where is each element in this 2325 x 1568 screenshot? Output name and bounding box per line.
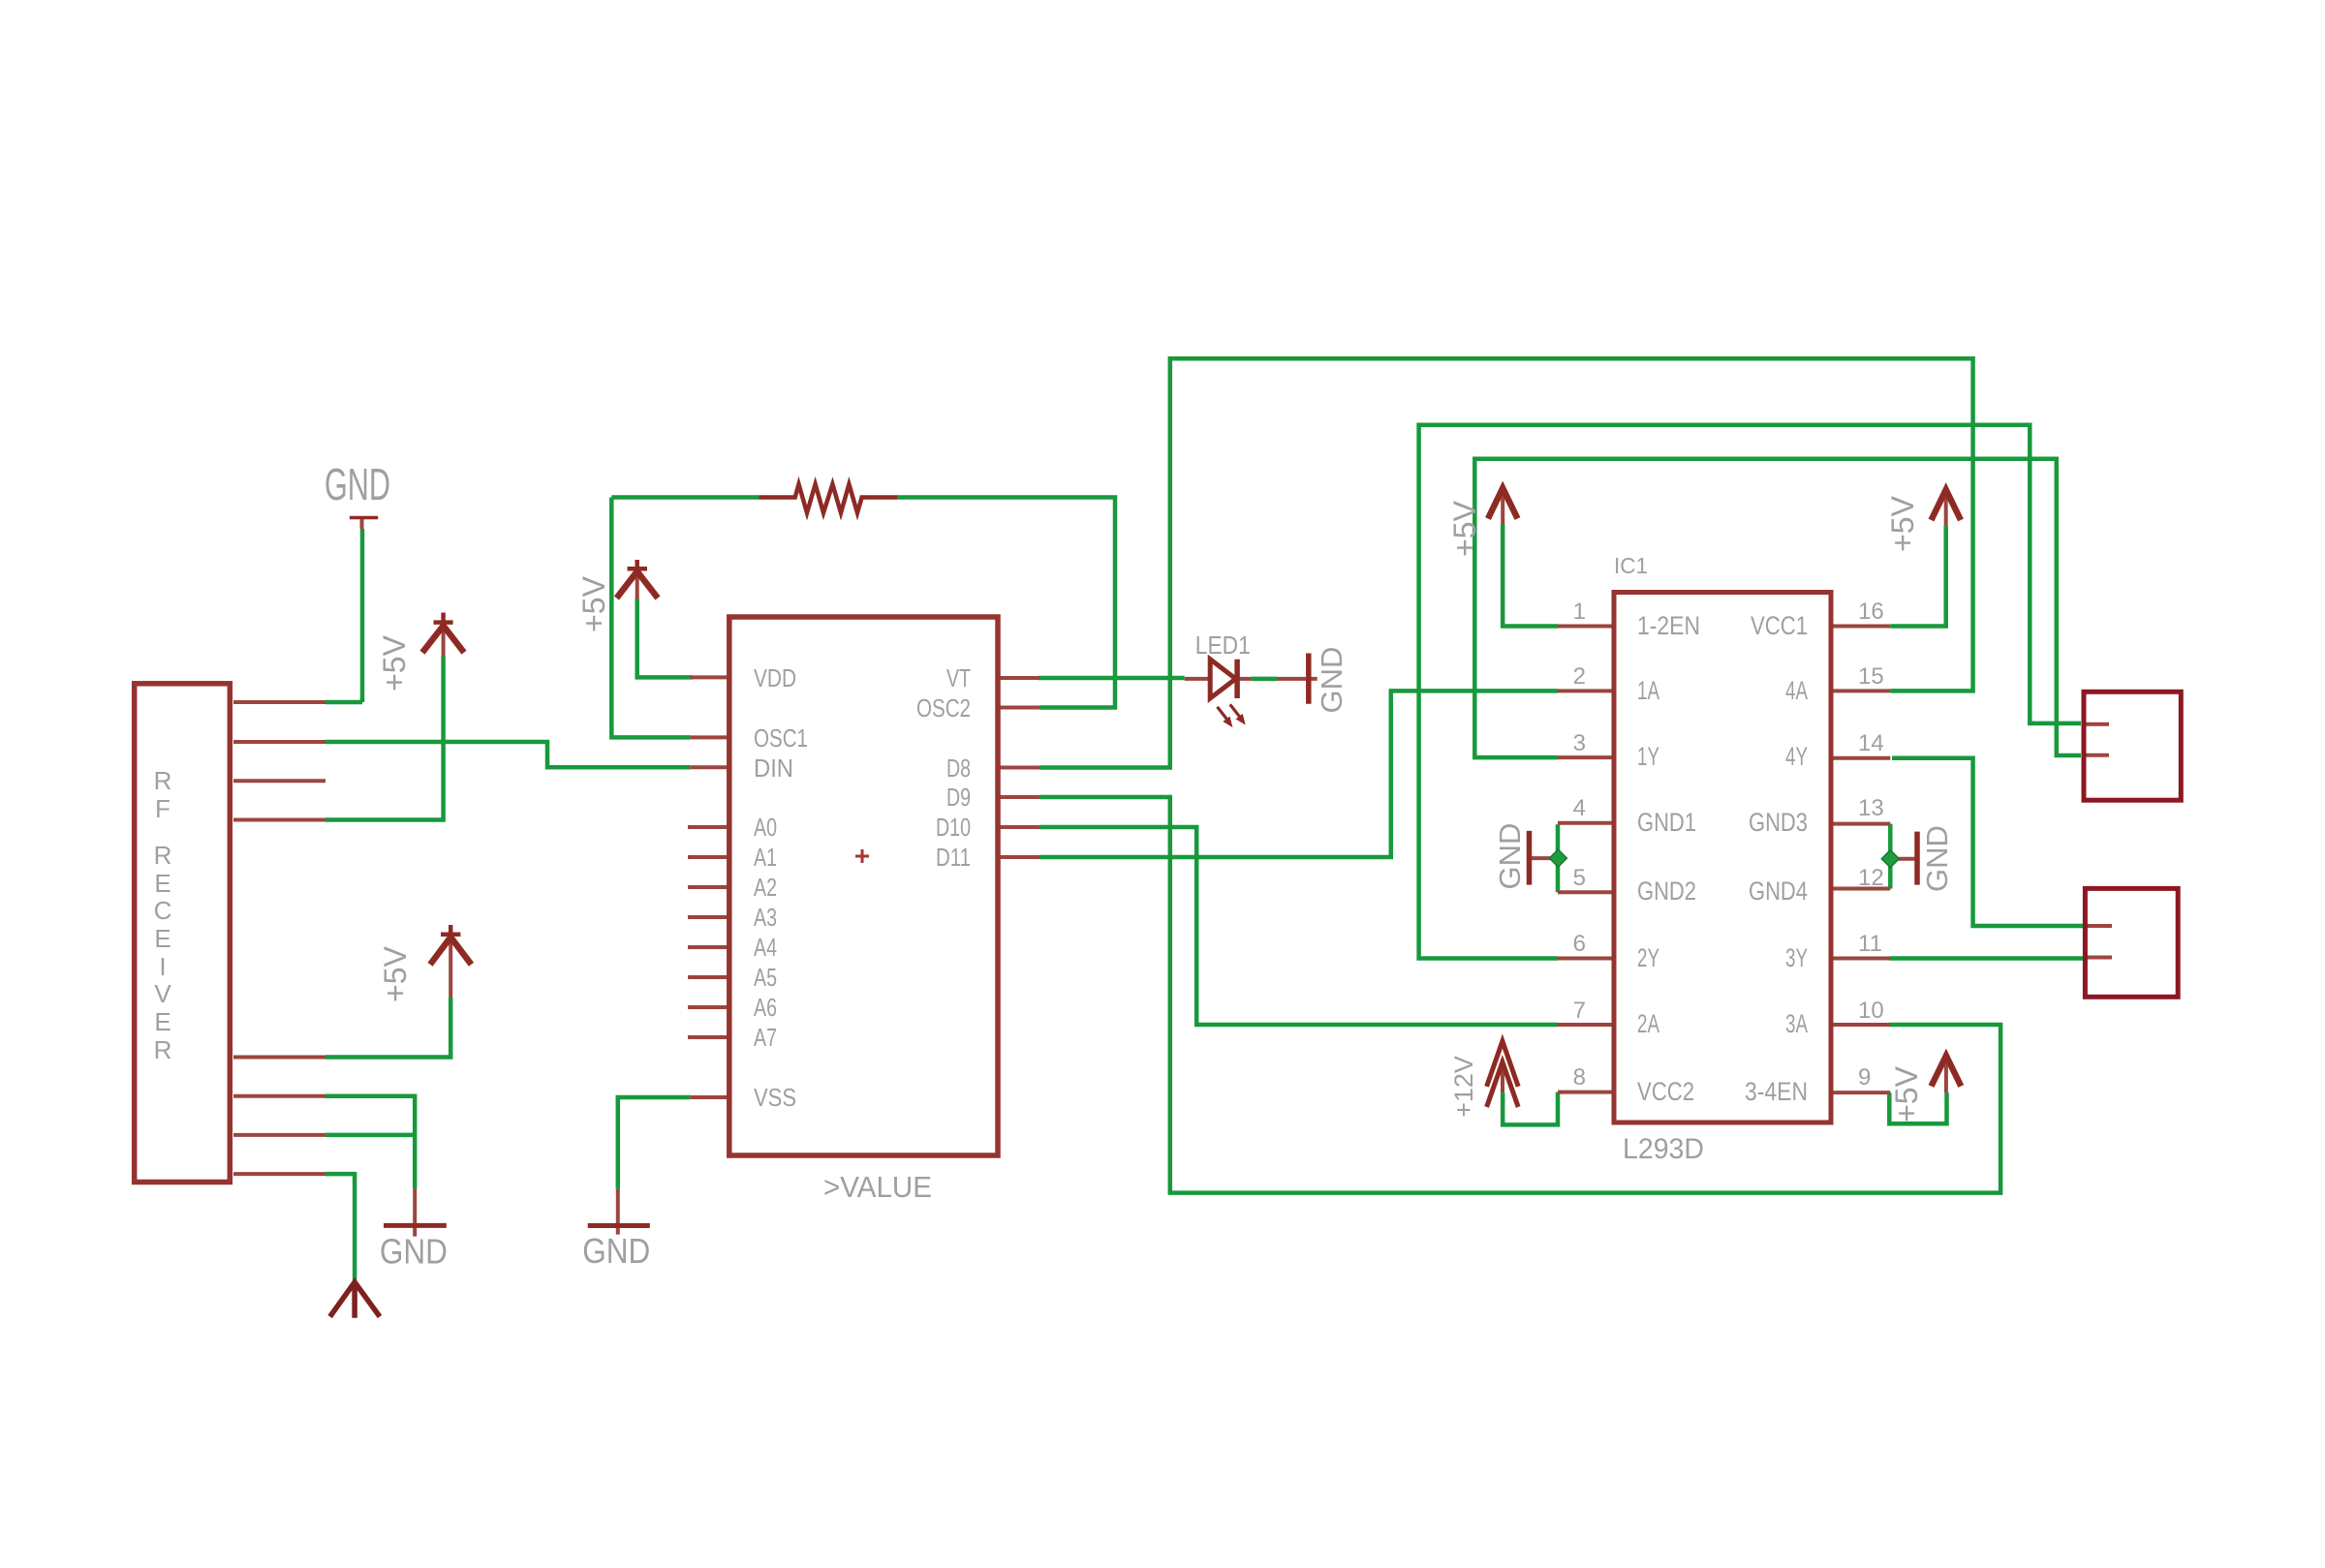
svg-text:A5: A5 xyxy=(754,963,777,992)
svg-text:GND: GND xyxy=(380,1232,448,1272)
svg-text:GND: GND xyxy=(1315,647,1348,714)
svg-text:VDD: VDD xyxy=(754,663,796,692)
svg-text:A6: A6 xyxy=(754,993,777,1022)
svg-text:1: 1 xyxy=(1573,599,1586,625)
svg-text:D11: D11 xyxy=(936,843,971,872)
svg-text:11: 11 xyxy=(1858,931,1882,957)
svg-text:VCC1: VCC1 xyxy=(1751,611,1808,640)
svg-text:L293D: L293D xyxy=(1623,1133,1704,1165)
svg-text:2: 2 xyxy=(1573,663,1586,690)
svg-text:VT: VT xyxy=(946,663,971,692)
svg-text:+5V: +5V xyxy=(378,945,413,1001)
svg-text:A3: A3 xyxy=(754,903,777,932)
svg-text:5: 5 xyxy=(1573,865,1586,891)
svg-text:D10: D10 xyxy=(936,813,971,842)
svg-text:C: C xyxy=(154,896,172,925)
svg-text:V: V xyxy=(154,979,171,1008)
svg-text:A2: A2 xyxy=(754,873,777,902)
svg-text:R: R xyxy=(154,766,172,795)
svg-text:3Y: 3Y xyxy=(1785,943,1808,972)
svg-text:GND2: GND2 xyxy=(1637,876,1696,906)
svg-text:I: I xyxy=(159,952,166,981)
svg-text:E: E xyxy=(154,1007,170,1036)
svg-text:+5V: +5V xyxy=(576,575,611,631)
svg-text:F: F xyxy=(155,794,170,823)
svg-text:LED1: LED1 xyxy=(1195,630,1251,660)
svg-text:14: 14 xyxy=(1858,730,1884,756)
svg-text:1-2EN: 1-2EN xyxy=(1637,611,1700,640)
svg-text:R: R xyxy=(154,841,172,870)
svg-text:D8: D8 xyxy=(946,753,971,783)
svg-text:A1: A1 xyxy=(754,843,777,872)
svg-text:+5V: +5V xyxy=(1885,495,1920,551)
svg-text:3A: 3A xyxy=(1785,1009,1808,1038)
svg-text:2Y: 2Y xyxy=(1637,943,1659,972)
svg-text:+12V: +12V xyxy=(1449,1056,1478,1118)
svg-text:A4: A4 xyxy=(754,933,777,962)
svg-text:E: E xyxy=(154,869,170,898)
svg-text:9: 9 xyxy=(1858,1064,1871,1091)
svg-text:GND: GND xyxy=(582,1231,650,1271)
svg-text:IC1: IC1 xyxy=(1614,553,1648,578)
svg-text:15: 15 xyxy=(1858,663,1884,690)
svg-text:+5V: +5V xyxy=(1447,500,1482,556)
svg-text:A7: A7 xyxy=(754,1023,777,1052)
svg-text:3-4EN: 3-4EN xyxy=(1745,1077,1808,1106)
svg-text:3: 3 xyxy=(1573,730,1586,756)
svg-text:4: 4 xyxy=(1573,795,1586,821)
svg-text:E: E xyxy=(154,924,170,953)
svg-text:D9: D9 xyxy=(946,783,971,812)
svg-text:4Y: 4Y xyxy=(1785,742,1808,771)
svg-text:GND: GND xyxy=(325,459,390,509)
svg-text:+5V: +5V xyxy=(1889,1065,1924,1122)
svg-text:1Y: 1Y xyxy=(1637,742,1659,771)
svg-text:OSC1: OSC1 xyxy=(754,723,808,753)
svg-text:GND1: GND1 xyxy=(1637,808,1696,837)
svg-text:10: 10 xyxy=(1858,998,1884,1024)
svg-text:>VALUE: >VALUE xyxy=(823,1170,932,1204)
svg-text:VCC2: VCC2 xyxy=(1637,1077,1694,1106)
svg-text:A0: A0 xyxy=(754,813,777,842)
svg-text:GND: GND xyxy=(1920,825,1954,892)
svg-text:2A: 2A xyxy=(1637,1009,1659,1038)
svg-text:6: 6 xyxy=(1573,931,1586,957)
svg-text:GND3: GND3 xyxy=(1749,808,1808,837)
svg-text:VSS: VSS xyxy=(754,1083,796,1112)
svg-text:4A: 4A xyxy=(1785,676,1808,705)
svg-text:+5V: +5V xyxy=(377,634,412,691)
svg-text:R: R xyxy=(154,1035,172,1064)
svg-text:OSC2: OSC2 xyxy=(916,693,971,723)
svg-text:12: 12 xyxy=(1858,865,1884,891)
svg-text:7: 7 xyxy=(1573,998,1586,1024)
svg-text:DIN: DIN xyxy=(754,753,793,783)
svg-text:1A: 1A xyxy=(1637,676,1659,705)
svg-text:16: 16 xyxy=(1858,599,1884,625)
svg-text:GND4: GND4 xyxy=(1749,876,1808,906)
svg-text:GND: GND xyxy=(1493,823,1527,890)
svg-text:8: 8 xyxy=(1573,1064,1586,1091)
svg-text:13: 13 xyxy=(1858,795,1884,821)
